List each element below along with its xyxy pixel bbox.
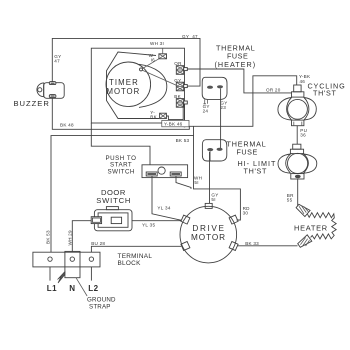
terminal GY — [174, 78, 187, 91]
svg-text:DRIVE: DRIVE — [192, 224, 225, 233]
label GY 51 — [211, 192, 218, 202]
timer wiper to GY contact — [142, 70, 176, 85]
timer motor — [106, 62, 151, 107]
svg-text:36: 36 — [300, 133, 306, 138]
drive motor — [180, 203, 238, 263]
timer cam pivot — [140, 68, 143, 71]
wire GY 23 fuse to fuse — [220, 89, 222, 149]
label PUSH TO START SWITCH — [106, 155, 137, 176]
svg-text:(HEATER): (HEATER) — [215, 60, 256, 69]
svg-text:L2: L2 — [88, 284, 98, 293]
label THERMAL FUSE 2 — [227, 140, 267, 157]
timer cam plate — [107, 52, 160, 119]
svg-text:46: 46 — [300, 79, 306, 84]
svg-text:BK 53: BK 53 — [176, 138, 190, 143]
terminal OR — [174, 61, 187, 74]
wire GY 47 buzzer to timer GY terminal — [52, 38, 200, 86]
label Y-BK 46 boxed — [162, 120, 189, 126]
svg-text:WH 29: WH 29 — [68, 230, 73, 245]
wire BK 53 terminal block to switch and motor RD 30 — [51, 136, 240, 253]
svg-text:55: 55 — [287, 198, 293, 203]
terminal BK — [174, 94, 187, 107]
wire PU 36 cycling to hi-limit — [296, 126, 298, 145]
label DOOR SWITCH — [96, 188, 131, 205]
terminal W 16 — [149, 48, 167, 62]
svg-text:MOTOR: MOTOR — [107, 87, 141, 96]
svg-text:23: 23 — [220, 105, 226, 110]
label Y-BK 46 right — [299, 74, 311, 84]
wire WH 29 terminal block to door switch — [72, 221, 91, 253]
heater — [296, 204, 336, 247]
connector Y-BK to timer — [150, 104, 183, 120]
timer cam lobe — [139, 64, 167, 107]
svg-text:N: N — [69, 284, 75, 293]
ground strap — [58, 272, 117, 311]
timer wiper to W16 — [142, 59, 159, 69]
svg-text:OR 20: OR 20 — [266, 87, 281, 92]
svg-text:BK 33: BK 33 — [245, 241, 259, 246]
hi-limit thermostat — [278, 144, 317, 179]
label RD 30 — [243, 206, 251, 215]
svg-text:BLOCK: BLOCK — [118, 260, 142, 267]
svg-text:STRAP: STRAP — [89, 303, 111, 310]
svg-text:TIMER: TIMER — [109, 78, 139, 87]
svg-text:TH'ST: TH'ST — [244, 167, 268, 176]
svg-text:BK 48: BK 48 — [60, 123, 74, 128]
label BR 55 — [287, 193, 294, 203]
wire Y-BK 46 timer BK to cycling cap — [185, 76, 297, 127]
wire YL 35 door switch to motor — [132, 220, 182, 222]
thermal fuse (heater) — [202, 77, 227, 104]
wire BU 28 terminal block to motor — [91, 246, 181, 252]
svg-text:5I: 5I — [194, 180, 198, 185]
label GY 23 — [220, 100, 227, 110]
label WH 51 — [194, 175, 202, 185]
svg-text:MOTOR: MOTOR — [191, 233, 227, 242]
label PU 36 — [300, 128, 307, 138]
svg-text:Y-BK 46: Y-BK 46 — [164, 122, 183, 127]
cycling thermostat — [278, 85, 316, 126]
svg-text:TH'ST: TH'ST — [313, 89, 337, 98]
wire GY 51 fuse to motor top — [209, 152, 211, 203]
label TERMINAL BLOCK — [118, 253, 153, 267]
wire WH 31 left drop to start switch — [91, 123, 150, 165]
svg-text:BK 53: BK 53 — [45, 230, 50, 244]
wire from switch right terminal — [176, 176, 191, 189]
svg-text:SWITCH: SWITCH — [108, 168, 135, 175]
svg-text:24: 24 — [203, 108, 209, 113]
svg-text:30: 30 — [243, 210, 249, 215]
svg-text:L1: L1 — [47, 284, 57, 293]
svg-text:BK: BK — [150, 115, 157, 120]
svg-text:SWITCH: SWITCH — [96, 196, 131, 205]
wire OR 20 timer to cycling thermostat — [187, 69, 291, 93]
label THERMAL FUSE (HEATER) — [215, 44, 256, 69]
label GY 47 left — [54, 54, 61, 64]
wire BR 55 hi-limit to heater — [297, 179, 299, 206]
labels L1 N L2 — [47, 284, 99, 293]
push-to-start switch — [142, 165, 188, 178]
svg-text:I6: I6 — [151, 58, 156, 63]
label HI-LIMIT TH'ST — [238, 159, 277, 176]
thermal fuse 2 — [202, 140, 226, 161]
svg-text:WH 3I: WH 3I — [150, 41, 164, 46]
svg-text:47: 47 — [54, 59, 60, 64]
door switch — [91, 207, 132, 231]
wire YL 34 switch to motor — [152, 176, 182, 220]
svg-text:BUZZER: BUZZER — [14, 99, 50, 108]
svg-text:BU 28: BU 28 — [91, 241, 105, 246]
svg-text:HEATER: HEATER — [294, 224, 328, 233]
svg-text:YL 34: YL 34 — [157, 206, 170, 211]
svg-text:FUSE: FUSE — [237, 148, 259, 157]
timer enclosure box — [91, 48, 184, 123]
svg-text:GY 47: GY 47 — [182, 34, 198, 39]
svg-text:5I: 5I — [211, 197, 215, 202]
label GY 24 — [203, 104, 210, 114]
wire BK 33 motor to heater — [237, 245, 298, 247]
wire BK 48 buzzer to timer BK terminal — [52, 98, 189, 130]
label CYCLING TH'ST — [308, 81, 346, 97]
buzzer — [37, 82, 64, 99]
terminal block — [33, 251, 100, 280]
svg-text:YL 35: YL 35 — [142, 222, 155, 227]
